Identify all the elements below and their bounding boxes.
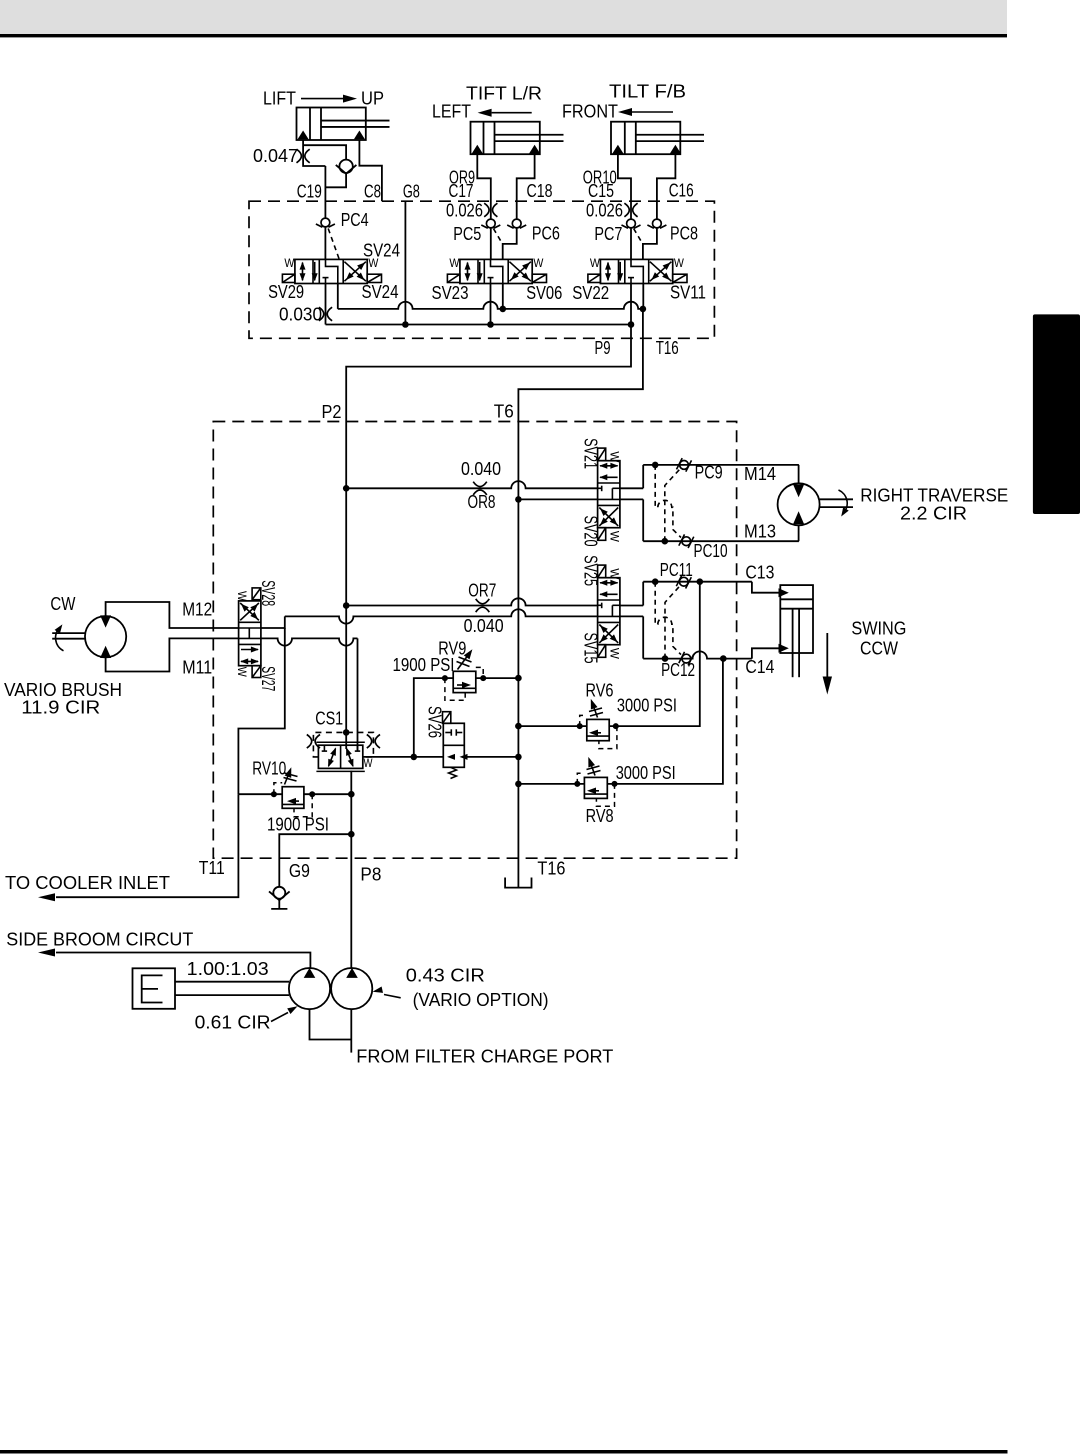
valve SV15 solenoid bottom [598, 645, 606, 658]
RV8 pilot dashed left [577, 773, 584, 784]
junction RV10 line [348, 791, 355, 798]
valve SV25 centre position [601, 603, 603, 609]
junction P2/OR8 [343, 485, 350, 492]
pilot dashed PC12 from C13 [655, 582, 681, 655]
svg-text:RV8: RV8 [586, 806, 614, 826]
right edge section tab [1033, 314, 1080, 514]
wire M14 line [643, 464, 799, 466]
check valve PC9 [680, 461, 689, 470]
svg-text:CW: CW [50, 594, 75, 614]
valve SV27/SV28 centre position [239, 627, 261, 629]
page top rule [0, 34, 1007, 37]
valve SV11 crossed position [650, 262, 672, 282]
junction P bus / valve2 A [487, 321, 494, 328]
orifice 0.026 (valve2) [484, 203, 497, 217]
svg-text:W: W [590, 256, 601, 270]
check valve PC7 [627, 219, 636, 228]
wire PC7 to valve SV22 [630, 228, 632, 259]
cylinder TIFT L/R (C17/C18) [471, 122, 540, 155]
SV26 blocked position [445, 732, 451, 734]
svg-text:SV23: SV23 [432, 283, 469, 303]
svg-text:SV27: SV27 [258, 666, 278, 691]
svg-text:M14: M14 [744, 464, 776, 484]
wire M12 motor to valve [106, 602, 239, 628]
G9 vent symbol [278, 900, 280, 909]
junction M14 pilot tap [652, 462, 659, 469]
valve SV21/SV20 body [598, 461, 620, 528]
svg-text:3000 PSI: 3000 PSI [617, 696, 677, 716]
svg-text:SV24: SV24 [362, 282, 399, 302]
valve SV24 crossed position [344, 262, 366, 282]
swing cylinder [780, 585, 813, 653]
RV8 spring adjust arrow [590, 762, 595, 776]
wire RV6 outlet to T6 [518, 725, 586, 727]
svg-text:W: W [449, 256, 460, 270]
wire RV6 inlet from C13 line [609, 582, 700, 726]
valve SV29 centre position [326, 259, 338, 283]
svg-text:C19: C19 [297, 182, 322, 202]
pump 0.61 CIR [289, 968, 330, 1009]
wire C19 left port down [303, 140, 325, 166]
svg-text:3000 PSI: 3000 PSI [616, 763, 676, 783]
wire SV21 right ports [620, 487, 643, 489]
wire C15 left port [618, 154, 631, 219]
wire T16 to T6 interconnect [518, 309, 643, 422]
wire C19 vertical [324, 166, 326, 218]
wire C18 right port [517, 154, 535, 219]
RV9 spring adjust arrow [458, 655, 469, 670]
svg-text:0.030: 0.030 [279, 305, 322, 325]
svg-text:PC10: PC10 [694, 541, 728, 561]
svg-text:SV29: SV29 [268, 282, 304, 302]
CS1 right T-bar [357, 745, 359, 751]
check valve PC4 [321, 218, 330, 227]
svg-text:CCW: CCW [860, 639, 898, 659]
relief valve RV8 box [584, 777, 607, 798]
arrow LEFT [492, 112, 532, 114]
svg-text:PC12: PC12 [661, 660, 695, 680]
motor traverse shaft [820, 498, 853, 500]
RV6 pilot dashed right [599, 726, 617, 749]
swing direction arrow [826, 633, 828, 678]
check valve PC6 [512, 219, 521, 228]
valve SV25/SV15 body [598, 578, 620, 645]
pilot dashed PC9 from M13 [665, 470, 680, 542]
svg-text:TILT F/B: TILT F/B [609, 82, 686, 102]
check valve PC11 [679, 577, 688, 586]
wire C13 to swing cylinder [752, 582, 779, 593]
relief valve RV9 box [453, 671, 476, 692]
page bottom rule [0, 1450, 1008, 1454]
T return bus (upper) [338, 302, 643, 309]
wire valve3 A to P bus [630, 284, 632, 325]
svg-text:11.9 CIR: 11.9 CIR [21, 698, 100, 718]
wire SV27 right port line B [261, 638, 358, 645]
wire SV28 right port to swing line [261, 616, 285, 628]
svg-text:W: W [533, 256, 544, 270]
junction RV9/T6 [515, 675, 522, 682]
svg-text:TIFT L/R: TIFT L/R [466, 84, 542, 104]
SV26 spring zigzag [449, 767, 457, 778]
junction RV6/T6 [515, 723, 522, 730]
RV10 spring adjust arrow [285, 772, 290, 785]
valve SV23/SV06 body [460, 259, 532, 283]
svg-text:W: W [364, 756, 374, 770]
RV10 internal arrow [290, 800, 299, 802]
svg-text:RV10: RV10 [252, 759, 286, 779]
wire M11 motor to valve [106, 638, 239, 671]
RV6 pilot dashed left [580, 715, 587, 726]
svg-text:PC7: PC7 [594, 224, 622, 244]
wire C13 riser [642, 582, 644, 606]
valve SV21 position1 arrows [600, 465, 618, 467]
pilot dashed PC5 [493, 229, 502, 244]
junction RV8/T6 [515, 781, 522, 788]
wire OR8 line P2 to SV21 [346, 481, 597, 488]
svg-text:1900 PSI: 1900 PSI [267, 815, 329, 835]
svg-text:W: W [235, 667, 249, 678]
RV9 inlet line [445, 677, 453, 679]
valve SV22 position1 flow arrows [607, 263, 609, 281]
svg-text:M12: M12 [182, 600, 212, 620]
svg-text:LIFT: LIFT [263, 89, 296, 109]
valve SV29 spring left [282, 274, 295, 282]
junction G9 branch [348, 831, 355, 838]
leader 0.61 CIR [271, 1013, 288, 1022]
cylinder TILT F/B (C15/C16) [611, 122, 680, 155]
electric motor E box [133, 968, 176, 1009]
svg-text:M11: M11 [182, 658, 212, 678]
RV9 drain dashed [476, 667, 483, 677]
svg-text:M13: M13 [744, 522, 776, 542]
RV9 internal arrow [457, 684, 466, 686]
RV6 spring adjust arrow [593, 704, 598, 718]
arrow LIFT to UP [301, 98, 343, 100]
CS1 body [318, 745, 362, 768]
P pressure bus (lower) [326, 324, 632, 326]
junction T bus end [640, 306, 647, 313]
junction P bus end [628, 321, 635, 328]
svg-text:SV26: SV26 [424, 706, 444, 738]
junction C14 pilot tap [662, 655, 669, 662]
orifice 0.026 (valve3) [624, 203, 637, 217]
valve SV20 crossed position [599, 508, 618, 526]
svg-text:W: W [235, 591, 249, 602]
svg-text:P9: P9 [595, 338, 611, 358]
valve SV29/SV24 body [295, 259, 367, 283]
pilot dashed PC10 from M14 [655, 465, 681, 538]
junction T6/SV21 [515, 496, 522, 503]
wire PC8 jog to valve [643, 228, 657, 259]
CS1 dashed pilot box [313, 732, 373, 757]
svg-text:0.047: 0.047 [253, 146, 298, 166]
valve SV06 spring right [532, 274, 546, 282]
svg-text:0.026: 0.026 [446, 200, 483, 220]
svg-text:UP: UP [361, 89, 384, 109]
svg-text:SWING: SWING [851, 619, 906, 639]
junction P2 at CS1 [343, 729, 350, 736]
motor right traverse [778, 483, 820, 525]
wire PC6 jog to valve [503, 228, 517, 259]
wire CS1 bottom to pump P8 [350, 771, 352, 968]
dashed manifold box 1 [249, 201, 714, 338]
RV9 outlet to T6 [476, 677, 519, 679]
wire valve2 B to T bus [502, 284, 504, 309]
wire line B down to CS1 [357, 638, 359, 751]
motor CW rotation arrow [56, 627, 64, 651]
RV9 pilot dashed [445, 678, 465, 700]
svg-text:T6: T6 [494, 402, 514, 422]
svg-text:PC5: PC5 [453, 224, 481, 244]
wire RV8 outlet to T6 [518, 783, 584, 785]
relief valve RV10 box [282, 787, 304, 809]
wire check bypass bottom [325, 174, 346, 188]
svg-text:C16: C16 [669, 181, 694, 201]
valve SV26 body [443, 723, 464, 767]
valve SV26 solenoid [443, 712, 451, 724]
svg-text:SV20: SV20 [580, 516, 600, 547]
svg-text:PC8: PC8 [670, 224, 698, 244]
swing cylinder port arrow upper [779, 588, 789, 597]
pilot dashed PC11 from C14 [665, 586, 680, 658]
svg-text:SV22: SV22 [572, 283, 609, 303]
check valve cylinder1 bypass [339, 160, 352, 173]
wire OR7 line P2 to SV25 [346, 598, 597, 605]
svg-text:SV06: SV06 [526, 283, 562, 303]
svg-text:PC6: PC6 [532, 224, 560, 244]
svg-text:PC9: PC9 [695, 463, 723, 483]
valve SV27/SV28 body [239, 601, 261, 666]
CS1 pilot orifice left [307, 735, 320, 749]
wire RV9 inlet riser [414, 678, 445, 757]
svg-text:G8: G8 [403, 181, 420, 201]
valve SV11 spring right [673, 274, 687, 282]
check valve G9 [273, 887, 285, 899]
valve SV23 position1 flow arrows [467, 263, 469, 281]
wire RV10 line right [304, 793, 351, 795]
wire P9 to P2 interconnect [346, 325, 631, 422]
CS1 left section restrictor [323, 745, 325, 751]
junction SV26/T6 [515, 754, 522, 761]
svg-text:OR8: OR8 [468, 492, 496, 512]
wire C13 line [643, 581, 752, 583]
svg-text:G9: G9 [289, 861, 310, 881]
wire junction down to RV10 [238, 628, 284, 794]
arrow FRONT [632, 111, 673, 113]
svg-text:SV11: SV11 [670, 283, 706, 303]
valve SV29 position1 flow arrows [302, 263, 304, 281]
motor traverse rotation arrow [839, 490, 848, 514]
valve SV22 spring left [588, 274, 601, 282]
svg-text:SV15: SV15 [580, 633, 600, 664]
wire PC4 to valve SV29 [324, 227, 326, 259]
svg-text:W: W [674, 256, 685, 270]
svg-text:2.2 CIR: 2.2 CIR [900, 504, 967, 524]
svg-text:RV6: RV6 [586, 681, 614, 701]
wire M13 riser [642, 499, 644, 541]
wire check bypass top [303, 145, 346, 159]
RV10 pilot dashed left [274, 783, 282, 794]
wire brush line to SV25 lower port [285, 609, 598, 623]
svg-text:LEFT: LEFT [432, 102, 471, 122]
wire RV10 line left [238, 793, 282, 795]
wire SV26 to T6 [464, 756, 518, 758]
wire M14 riser [642, 465, 644, 488]
wire C17 left port [477, 154, 491, 219]
svg-text:T11: T11 [199, 858, 225, 878]
pilot dashed PC4 [328, 229, 339, 259]
svg-text:SV24: SV24 [363, 241, 400, 261]
wire G9 branch [279, 834, 351, 887]
svg-text:0.43 CIR: 0.43 CIR [406, 966, 485, 986]
RV8 internal arrow [590, 790, 599, 792]
svg-text:SIDE BROOM CIRCUT: SIDE BROOM CIRCUT [6, 929, 193, 949]
wire valve3 B to T bus [642, 284, 644, 309]
valve SV27 solenoid bottom [252, 666, 261, 678]
wire G8 vertical [404, 201, 406, 324]
junction C13 pilot tap [652, 578, 659, 585]
RV6 internal arrow [592, 732, 601, 734]
svg-text:1.00:1.03: 1.00:1.03 [187, 959, 269, 979]
junction C13/RV6 tap [697, 578, 704, 585]
orifice 0.047 [297, 149, 310, 163]
SV26 flow position arrows [447, 754, 455, 760]
svg-text:T16: T16 [537, 859, 565, 879]
relief valve RV6 box [587, 719, 609, 740]
valve SV20 solenoid bottom [598, 528, 606, 541]
svg-text:W: W [607, 648, 621, 660]
svg-text:W: W [284, 256, 295, 270]
valve SV22/SV11 body [600, 259, 672, 283]
svg-text:0.040: 0.040 [464, 616, 504, 636]
pump 0.43 CIR [331, 968, 372, 1009]
motor brush shaft [52, 632, 85, 634]
motor vario brush [85, 616, 126, 657]
svg-text:OR7: OR7 [468, 581, 496, 601]
wire P2 vertical [345, 422, 347, 750]
svg-text:PC4: PC4 [341, 210, 369, 230]
wire valve2 A to P bus [490, 284, 492, 325]
orifice OR8 0.040 [473, 482, 487, 495]
svg-text:W: W [607, 531, 621, 543]
svg-text:P2: P2 [322, 402, 342, 422]
wire CS1 right to SV26 [363, 756, 444, 758]
wire side broom output [56, 953, 310, 969]
svg-text:RIGHT TRAVERSE: RIGHT TRAVERSE [860, 486, 1008, 506]
svg-text:C14: C14 [745, 657, 774, 677]
valve SV15 crossed position [599, 625, 618, 643]
leader 0.43 CIR [384, 995, 401, 998]
wire C16 right port [657, 154, 676, 219]
valve SV25 position1 arrows [600, 582, 618, 584]
valve SV23 spring left [447, 274, 460, 282]
valve SV23 centre position [491, 259, 503, 283]
check valve PC8 [653, 219, 662, 228]
svg-text:FRONT: FRONT [562, 102, 618, 122]
junction M13 pilot tap [662, 538, 669, 545]
svg-text:1900 PSI: 1900 PSI [393, 655, 455, 675]
dashed manifold box 2 [213, 422, 736, 859]
svg-text:C17: C17 [449, 181, 474, 201]
wire valve1 B to T bus [337, 284, 339, 309]
wire T6 to SV21 lower port [518, 498, 597, 500]
wire C14 riser [642, 616, 644, 658]
svg-text:C15: C15 [588, 181, 614, 201]
svg-text:(VARIO OPTION): (VARIO OPTION) [413, 990, 549, 1010]
pilot dashed PC7 [634, 229, 643, 244]
valve SV21 centre position [601, 486, 603, 492]
pump drive shaft [175, 981, 289, 983]
pump suction lines [310, 1009, 352, 1039]
junction RV9 inlet [411, 754, 418, 761]
valve SV24 spring right [367, 274, 381, 282]
wire PC5 to valve SV23 [490, 228, 492, 259]
svg-text:FROM FILTER CHARGE PORT: FROM FILTER CHARGE PORT [356, 1047, 613, 1067]
svg-text:TO COOLER INLET: TO COOLER INLET [5, 873, 170, 893]
page header grey band [0, 0, 1007, 34]
junction T bus / valve2 B [500, 306, 507, 313]
wire C14 line [643, 651, 752, 658]
wire C8 right port [359, 140, 382, 201]
valve SV27 position arrows [241, 649, 258, 651]
wire SV25 right ports [620, 605, 643, 607]
wire valve1 A to P bus with orifice 0.030 [325, 284, 327, 325]
valve SV22 centre position [631, 259, 643, 283]
wire M13 line [643, 540, 799, 542]
svg-text:PC11: PC11 [660, 560, 693, 580]
wire RV8 inlet from C14 line [607, 659, 723, 784]
valve SV06 crossed position [509, 262, 531, 282]
check valve PC10 [682, 537, 691, 546]
pump right port arrow [346, 968, 358, 978]
orifice 0.030 [319, 307, 332, 321]
svg-text:C13: C13 [745, 563, 774, 583]
cylinder LIFT (C19/C8) [297, 108, 366, 141]
valve SV28 solenoid top [252, 588, 261, 600]
CS1 right section restrictor [347, 749, 353, 766]
check valve PC5 [486, 219, 495, 228]
pump left port arrow [304, 968, 316, 978]
valve SV21 solenoid top [598, 448, 606, 461]
svg-text:0.026: 0.026 [586, 200, 623, 220]
wire C14 to swing cylinder [752, 648, 779, 658]
wire to cooler inlet [56, 794, 238, 897]
swing cylinder port arrow lower [779, 644, 789, 653]
CS1 pilot orifice right [367, 735, 380, 749]
valve SV25 solenoid top [598, 565, 606, 578]
wire T6 vertical [517, 422, 519, 888]
T16 tank port bracket [505, 878, 531, 888]
svg-text:C8: C8 [364, 182, 381, 202]
junction C14/RV8 tap [720, 655, 727, 662]
RV10 pilot dashed right [294, 794, 312, 817]
svg-text:0.040: 0.040 [461, 459, 501, 479]
orifice OR7 0.040 [476, 599, 490, 612]
valve SV28 crossed position [240, 603, 259, 620]
svg-text:0.61 CIR: 0.61 CIR [195, 1013, 271, 1033]
svg-text:P8: P8 [360, 865, 381, 885]
RV8 pilot dashed right [596, 784, 614, 806]
junction P bus / G8 [402, 321, 409, 328]
svg-text:T16: T16 [656, 338, 679, 358]
junction P2/OR7 [343, 602, 350, 609]
svg-text:C18: C18 [527, 181, 553, 201]
check valve PC12 [682, 654, 691, 663]
svg-text:CS1: CS1 [315, 709, 343, 729]
